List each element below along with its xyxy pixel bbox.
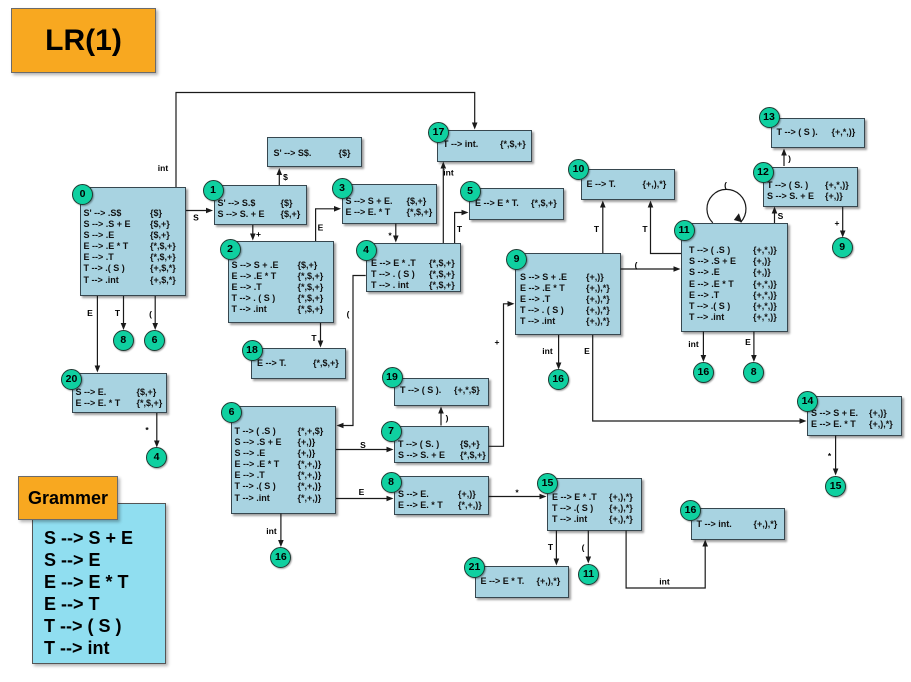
state 2 circle (220, 239, 241, 260)
state 19 box (394, 378, 489, 407)
state 5 circle (460, 181, 481, 202)
svg-text:S: S (778, 211, 784, 221)
svg-text:E: E (87, 308, 93, 318)
wire 8->15 * (489, 488, 547, 500)
state 14 circle (797, 391, 818, 412)
state 20 box (72, 373, 167, 413)
wire 0->8 T (115, 296, 126, 330)
state 19 circle (382, 367, 403, 388)
state 1 circle (203, 180, 224, 201)
wire 4->6 ( (337, 276, 366, 429)
svg-text:T: T (548, 542, 554, 552)
wire 0->17 int (158, 93, 478, 188)
wire 11->12 S (772, 207, 784, 224)
state 7 circle (381, 421, 402, 442)
svg-text:T: T (642, 224, 648, 234)
wire 7->9 + (489, 301, 515, 446)
svg-text:(: ( (582, 543, 585, 553)
state 15 box (547, 478, 642, 531)
state 3 box (342, 184, 437, 224)
state 13 circle (759, 107, 780, 128)
wire 9->16 int (542, 335, 561, 370)
wire 1->accept $ (277, 168, 289, 185)
node 8 (113, 330, 134, 351)
state 3 circle (332, 178, 353, 199)
wire 6->8 E (336, 487, 394, 501)
state 12 circle (753, 162, 774, 183)
state 11 circle (674, 220, 695, 241)
state 8 box (394, 476, 489, 515)
svg-text:S: S (193, 213, 199, 223)
state 16 circle (680, 500, 701, 521)
state 0 box (80, 187, 186, 296)
state 21 circle (464, 557, 485, 578)
state 10 circle (568, 159, 589, 180)
state 20 circle (61, 369, 82, 390)
state 13 box (771, 118, 866, 149)
state 6 circle (221, 402, 242, 423)
state 12 box (763, 167, 858, 208)
state 8 circle (381, 472, 402, 493)
state 14 box (807, 396, 902, 436)
state 11 box (681, 223, 788, 332)
node 16 (270, 547, 291, 568)
wire 11->11 self-loop ( (707, 180, 746, 223)
state 6 box (231, 406, 337, 514)
svg-text:E: E (745, 337, 751, 347)
svg-text:T: T (457, 224, 463, 234)
wire 12->9 + (835, 207, 846, 238)
wire 15->21 T (548, 531, 559, 566)
wire 1->2 + (250, 225, 261, 241)
state 9 box (515, 253, 621, 335)
svg-text:T: T (594, 224, 600, 234)
svg-text:+: + (495, 337, 500, 347)
wire 0->1 S (186, 208, 213, 223)
node 4 (146, 447, 167, 468)
grammar rules box (32, 503, 166, 664)
svg-text:+: + (835, 218, 840, 228)
svg-text:(: ( (635, 260, 638, 270)
wire 11->8 E (745, 332, 757, 363)
svg-text:int: int (266, 526, 277, 536)
node 6 (144, 330, 165, 351)
svg-text:*: * (388, 231, 392, 241)
svg-text:T: T (115, 308, 121, 318)
state 18 box (251, 348, 346, 379)
state 1 box (214, 185, 308, 225)
wire 14->15 * (828, 436, 839, 476)
state 4 box (366, 243, 461, 292)
state 4 circle (356, 240, 377, 261)
svg-text:int: int (443, 168, 454, 178)
title box LR(1) (11, 8, 156, 73)
state 2 box (228, 241, 334, 323)
state 15 circle (537, 473, 558, 494)
svg-text:*: * (828, 451, 832, 461)
node 16 (693, 362, 714, 383)
node 11 (578, 564, 599, 585)
state 16 box (691, 508, 786, 540)
svg-text:(: ( (724, 180, 727, 190)
state 9 circle (506, 249, 527, 270)
node 15 (825, 476, 846, 497)
state 17 box (437, 130, 532, 162)
svg-text:): ) (788, 154, 791, 164)
svg-text:E: E (584, 346, 590, 356)
wire 0->6 ( (149, 296, 158, 330)
wire 7->19 ) (438, 407, 448, 426)
svg-text:+: + (256, 229, 261, 239)
svg-text:int: int (158, 163, 169, 173)
svg-text:E: E (359, 487, 365, 497)
wire 6->7 S (336, 440, 394, 452)
accept box (267, 137, 362, 168)
wire 15->11 ( (582, 531, 592, 564)
wire 9->10 T (594, 201, 606, 254)
svg-text:(: ( (149, 309, 152, 319)
svg-text:int: int (688, 339, 699, 349)
grammar header (18, 476, 118, 520)
wire 9->14 E (584, 335, 806, 424)
state 10 box (581, 169, 676, 201)
wire 4->5 T (455, 210, 469, 243)
svg-text:*: * (145, 425, 149, 435)
node 16 (548, 369, 569, 390)
svg-text:S: S (360, 440, 366, 450)
state 18 circle (242, 340, 263, 361)
svg-text:int: int (542, 346, 553, 356)
wire 11->10 T (642, 201, 681, 254)
svg-text:E: E (318, 223, 324, 233)
state 17 circle (428, 122, 449, 143)
wire 9->11 ( (621, 260, 681, 272)
wire 4->17 int (441, 162, 454, 244)
svg-text:T: T (311, 333, 317, 343)
svg-text:int: int (659, 577, 670, 587)
wire 11->16 int (688, 332, 706, 363)
node 8 (743, 362, 764, 383)
wire 20->4 * (145, 413, 159, 448)
svg-text:): ) (446, 413, 449, 423)
svg-text:(: ( (347, 309, 350, 319)
state 0 circle (72, 184, 93, 205)
wire 2->18 T (311, 323, 323, 348)
svg-text:$: $ (283, 172, 288, 182)
wire 15->16 int (626, 531, 708, 589)
wire 3->4 * (388, 224, 398, 243)
wire 0->20 E (87, 296, 100, 373)
state 7 box (394, 426, 489, 463)
wire 6->16 int (266, 514, 283, 548)
wire 12->13 ) (781, 149, 791, 167)
state 5 box (469, 188, 564, 220)
state 21 box (475, 566, 570, 598)
node 9 (832, 237, 853, 258)
wire 2->3 E (316, 206, 341, 241)
